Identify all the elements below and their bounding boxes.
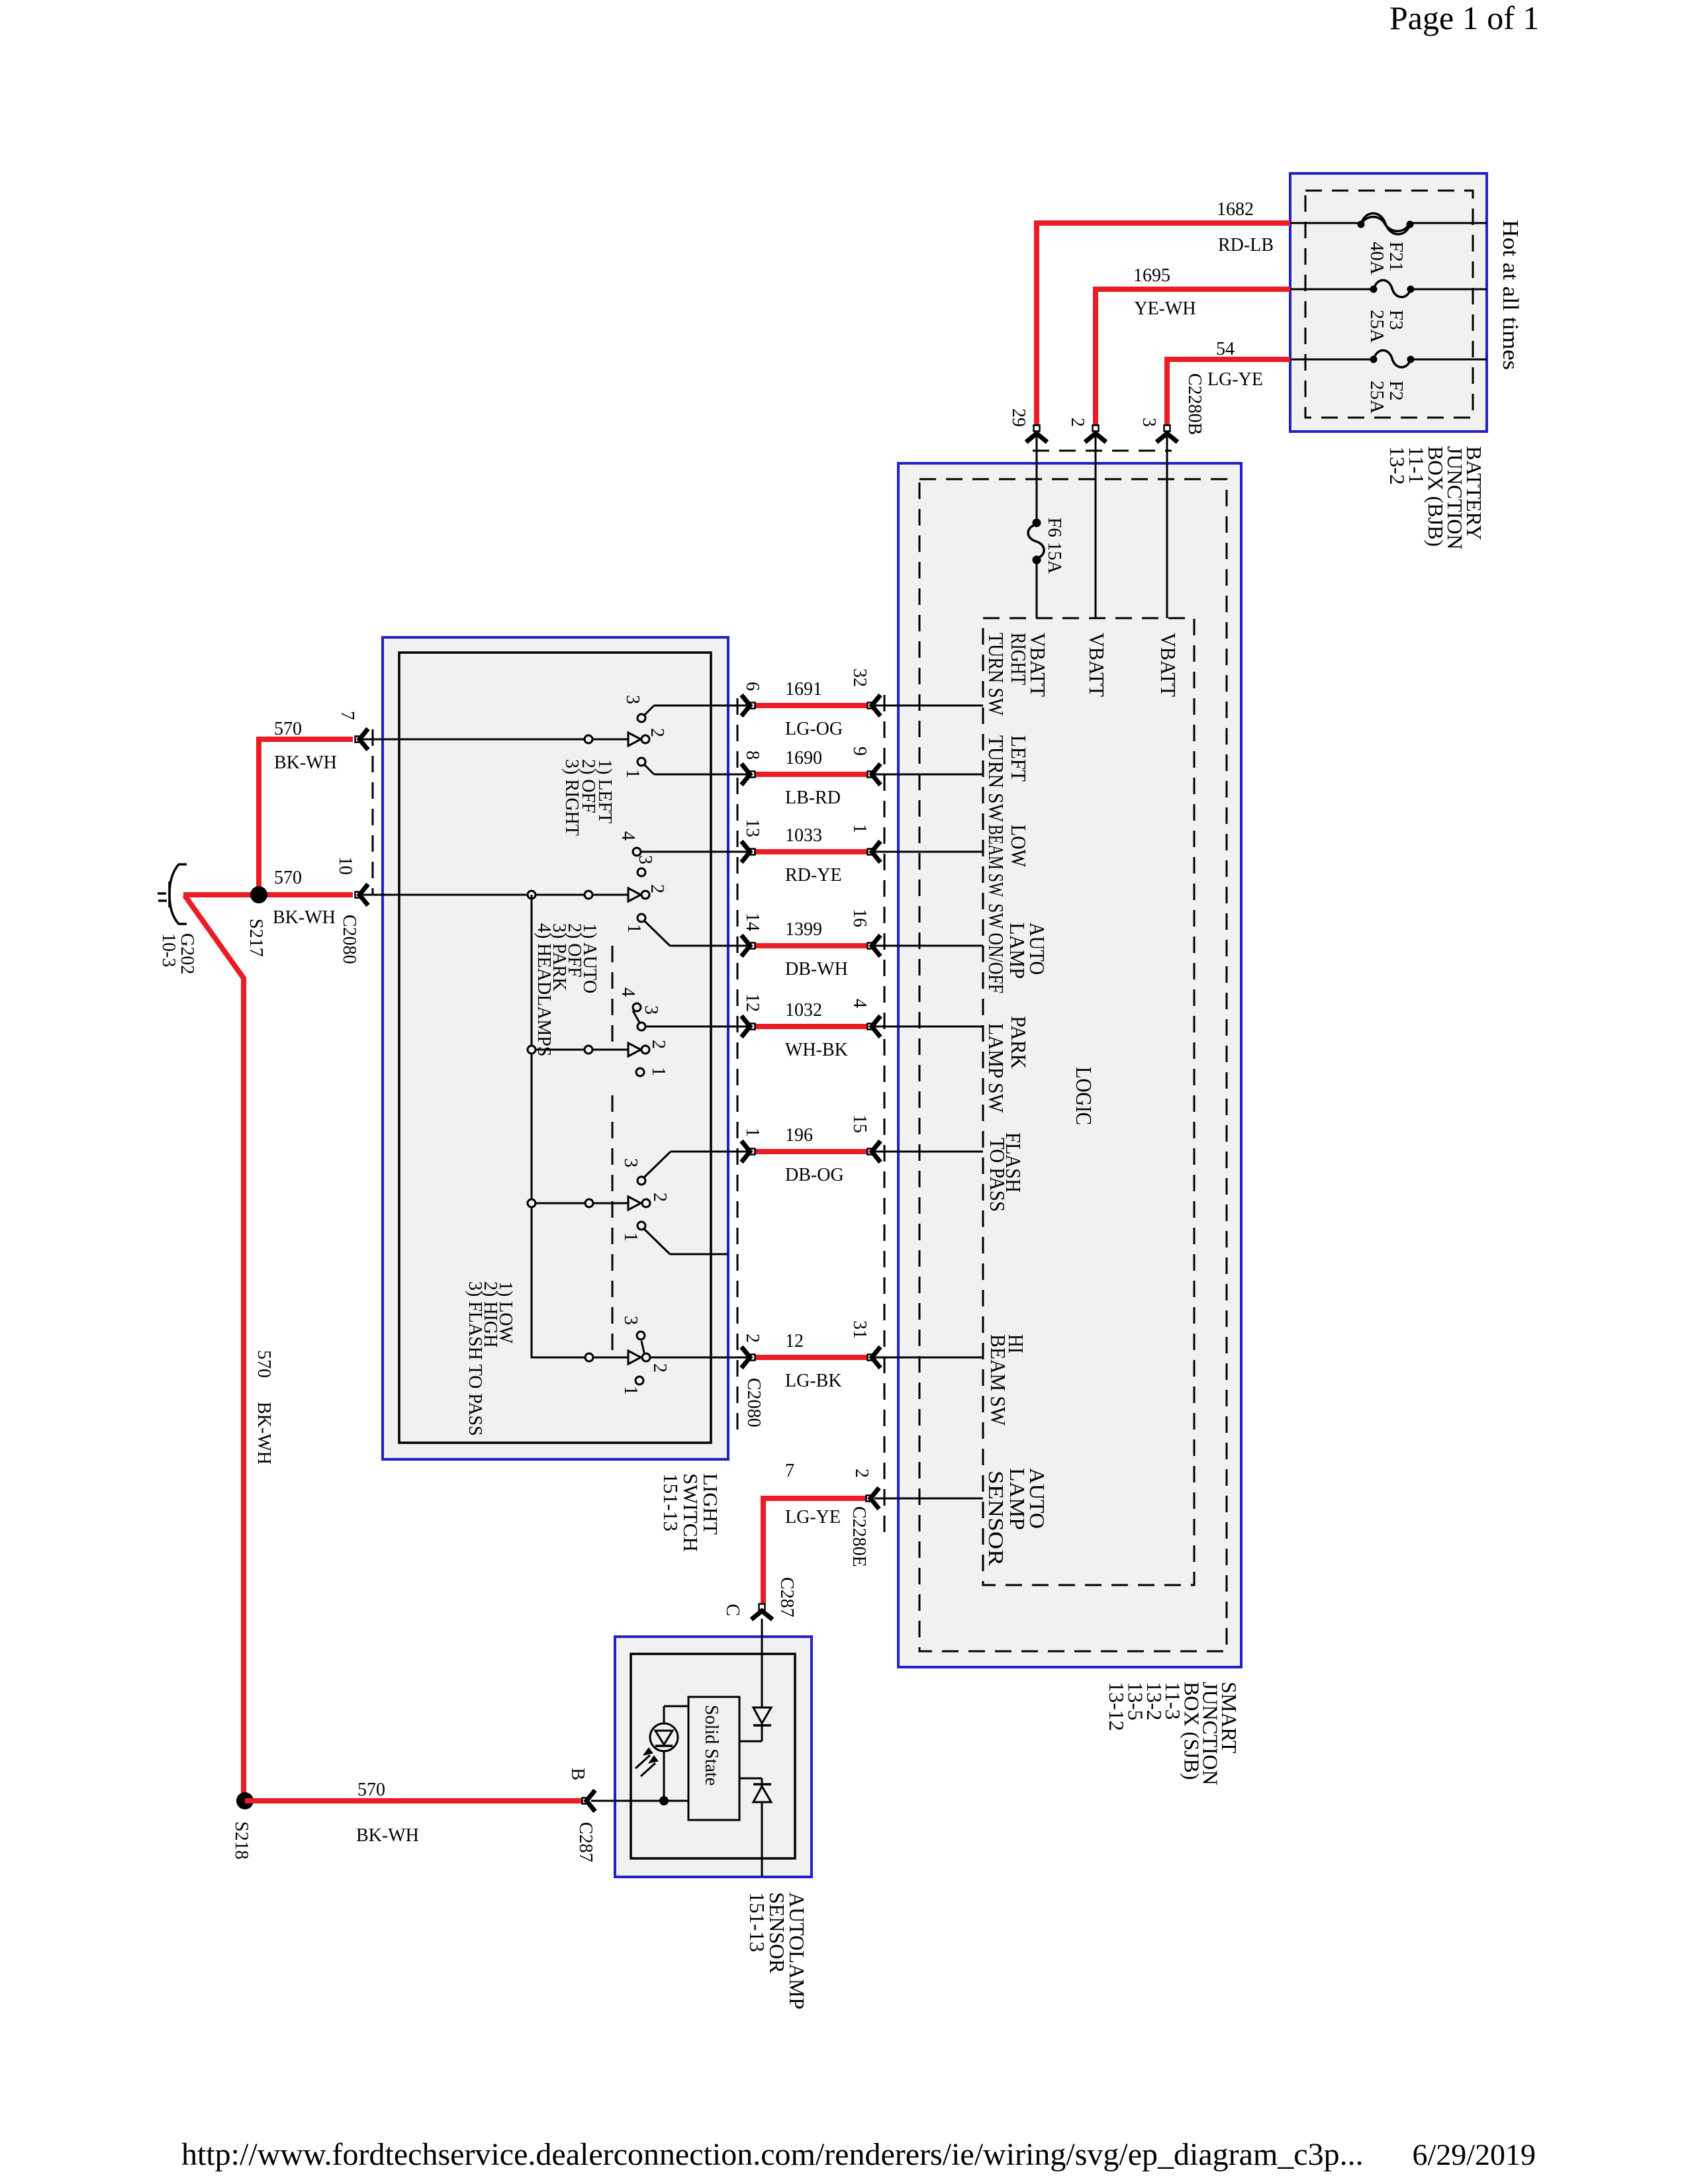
svg-text:RIGHT: RIGHT <box>1007 633 1031 685</box>
wire 1033 RD-YE row <box>728 851 747 853</box>
fuse F3 25A <box>1290 289 1374 291</box>
wire 1695 YE-WH <box>1096 289 1290 425</box>
svg-text:S218: S218 <box>231 1821 252 1860</box>
svg-text:13-12: 13-12 <box>1105 1682 1129 1731</box>
svg-text:LG-BK: LG-BK <box>785 1371 842 1391</box>
svg-text:C287: C287 <box>575 1822 596 1862</box>
Solid State box <box>688 1697 739 1820</box>
svg-text:1690: 1690 <box>785 748 822 768</box>
svg-text:2: 2 <box>649 1363 670 1373</box>
svg-text:BEAM SW: BEAM SW <box>984 825 1008 897</box>
svg-text:BK-WH: BK-WH <box>273 907 336 928</box>
svg-text:196: 196 <box>785 1125 813 1146</box>
svg-text:8: 8 <box>742 751 763 760</box>
svg-text:C287: C287 <box>776 1577 797 1617</box>
svg-text:LOW: LOW <box>1007 825 1031 868</box>
svg-text:SENSOR: SENSOR <box>984 1471 1008 1567</box>
svg-text:1: 1 <box>648 1067 669 1076</box>
LOGIC box <box>983 618 1194 1585</box>
svg-text:1: 1 <box>849 824 870 833</box>
svg-text:F2: F2 <box>1385 381 1407 401</box>
svg-text:1: 1 <box>622 769 643 778</box>
headlamp switch pole 2 <box>532 1049 628 1051</box>
svg-text:Solid State: Solid State <box>701 1705 722 1786</box>
svg-text:C2080: C2080 <box>743 1378 764 1428</box>
svg-text:TO PASS: TO PASS <box>986 1138 1009 1212</box>
svg-text:3: 3 <box>620 1158 641 1167</box>
svg-text:4) HEADLAMPS: 4) HEADLAMPS <box>534 923 554 1056</box>
smart junction box SJB <box>898 463 1241 1667</box>
svg-text:32: 32 <box>849 668 870 687</box>
headlamp switch pole 1 <box>363 894 628 896</box>
svg-text:B: B <box>567 1768 588 1780</box>
svg-text:BEAM SW: BEAM SW <box>986 1334 1010 1426</box>
wire 54 LG-YE <box>1167 359 1290 425</box>
svg-text:C2280E: C2280E <box>849 1506 869 1567</box>
svg-text:TURN SW: TURN SW <box>984 735 1008 823</box>
internal bus wire <box>532 895 628 1357</box>
wire 1691 LG-OG row <box>728 705 747 707</box>
svg-text:1: 1 <box>620 1232 641 1242</box>
svg-text:151-13: 151-13 <box>745 1892 769 1952</box>
svg-text:2: 2 <box>742 1334 763 1343</box>
ground G202 <box>169 864 187 924</box>
svg-text:1399: 1399 <box>785 919 822 940</box>
battery junction box BJB <box>1290 173 1487 432</box>
svg-text:LOGIC: LOGIC <box>1071 1067 1096 1125</box>
wire 7 LG-YE row <box>874 1498 983 1500</box>
svg-text:4: 4 <box>618 987 638 997</box>
wire 1690 LB-RD row <box>728 774 747 776</box>
svg-text:3: 3 <box>622 695 643 704</box>
svg-text:RD-LB: RD-LB <box>1218 235 1274 255</box>
svg-text:TURN SW: TURN SW <box>984 633 1008 716</box>
wire 12 LG-BK row <box>728 1357 747 1359</box>
wire 1032 WH-BK row <box>728 1026 747 1028</box>
fuse F2 25A <box>1290 359 1374 361</box>
svg-text:BK-WH: BK-WH <box>356 1825 419 1846</box>
svg-text:3) RIGHT: 3) RIGHT <box>561 759 582 836</box>
svg-text:4: 4 <box>849 999 870 1008</box>
connector C287 pin B <box>591 1800 688 1802</box>
svg-text:2: 2 <box>1067 418 1088 427</box>
svg-text:15: 15 <box>849 1115 870 1133</box>
svg-text:LAMP: LAMP <box>1006 1468 1029 1530</box>
svg-text:570: 570 <box>254 1350 274 1378</box>
svg-text:570: 570 <box>274 868 302 888</box>
diode D2 <box>739 1778 762 1780</box>
svg-text:VBATT: VBATT <box>1156 633 1180 697</box>
photodiode LED <box>650 1723 678 1751</box>
svg-text:7: 7 <box>337 711 357 720</box>
svg-text:http://www.fordtechservice.dea: http://www.fordtechservice.dealerconnect… <box>181 2137 1364 2172</box>
svg-text:570: 570 <box>357 1780 385 1800</box>
svg-text:2: 2 <box>649 1193 670 1202</box>
svg-text:F3: F3 <box>1385 310 1407 330</box>
svg-text:2: 2 <box>647 884 667 893</box>
svg-text:F21: F21 <box>1385 242 1407 271</box>
wire 1682 RD-LB <box>1037 223 1290 425</box>
svg-text:C2280B: C2280B <box>1184 373 1205 435</box>
wire 196 DB-OG row <box>728 1151 747 1153</box>
svg-text:40A: 40A <box>1366 242 1387 275</box>
svg-text:3: 3 <box>1139 418 1159 427</box>
svg-text:Page 1 of 1: Page 1 of 1 <box>1389 0 1539 36</box>
connector C2280B pins 29 2 3 <box>1095 437 1097 618</box>
light switch box <box>383 637 728 1459</box>
fuse F21 40A <box>1290 222 1358 224</box>
svg-text:1695: 1695 <box>1133 265 1170 286</box>
svg-text:6: 6 <box>742 682 763 691</box>
svg-text:2: 2 <box>648 1040 669 1049</box>
diode D1 <box>761 1619 763 1707</box>
svg-text:12: 12 <box>742 993 763 1012</box>
svg-text:29: 29 <box>1008 408 1029 427</box>
svg-text:LB-RD: LB-RD <box>785 788 841 808</box>
svg-text:25A: 25A <box>1366 310 1387 343</box>
svg-text:1682: 1682 <box>1217 199 1254 220</box>
svg-text:YE-WH: YE-WH <box>1134 298 1196 319</box>
svg-text:151-13: 151-13 <box>659 1473 682 1531</box>
svg-text:LAMP SW: LAMP SW <box>984 1023 1008 1113</box>
wire 570 BK-WH pin 7 <box>259 739 353 895</box>
svg-text:LAMP: LAMP <box>1006 923 1029 979</box>
svg-text:14: 14 <box>742 913 763 931</box>
svg-text:1033: 1033 <box>785 825 822 846</box>
svg-text:1032: 1032 <box>785 1000 822 1021</box>
wire 570 BK-WH to S218 <box>185 895 245 1801</box>
svg-text:1691: 1691 <box>785 679 822 700</box>
svg-text:16: 16 <box>849 909 870 927</box>
connector C2080 dashed line (left) <box>372 729 374 895</box>
connector C2080 dashed line (right) <box>737 698 739 1430</box>
svg-text:PARK: PARK <box>1007 1016 1031 1069</box>
dimmer switch pole 2 <box>585 1353 593 1361</box>
mechanical link dashed <box>612 946 614 1044</box>
svg-text:10-3: 10-3 <box>158 933 179 967</box>
dimmer switch pole 1 <box>532 1203 628 1205</box>
svg-text:LEFT: LEFT <box>1007 735 1031 782</box>
turn signal switch pole <box>363 739 628 741</box>
autolamp sensor box <box>615 1637 812 1877</box>
svg-text:C: C <box>722 1604 743 1616</box>
svg-text:VBATT: VBATT <box>1085 633 1109 697</box>
svg-text:DB-OG: DB-OG <box>785 1165 844 1185</box>
svg-text:2: 2 <box>647 728 667 737</box>
connector C2280 dashed line <box>884 695 886 1532</box>
svg-text:3: 3 <box>620 1316 641 1325</box>
photo arrows <box>635 1755 650 1768</box>
wire 570 BK-WH pin 10 <box>183 892 353 897</box>
svg-text:9: 9 <box>849 747 870 756</box>
svg-text:SW ON/OFF: SW ON/OFF <box>984 903 1008 993</box>
wire 570 BK-WH to autolamp sensor B <box>245 1798 582 1803</box>
svg-text:LG-YE: LG-YE <box>785 1507 841 1527</box>
svg-text:LG-YE: LG-YE <box>1207 369 1263 390</box>
svg-text:C2080: C2080 <box>339 915 359 964</box>
svg-text:BK-WH: BK-WH <box>274 752 337 773</box>
svg-text:F6 15A: F6 15A <box>1044 518 1064 574</box>
svg-text:Hot at all times: Hot at all times <box>1498 220 1523 370</box>
svg-text:13-2: 13-2 <box>1385 446 1409 485</box>
svg-text:WH-BK: WH-BK <box>785 1040 848 1060</box>
svg-text:4: 4 <box>618 831 638 841</box>
svg-text:G202: G202 <box>177 933 197 974</box>
wire 1399 DB-WH row <box>728 945 747 947</box>
svg-text:31: 31 <box>849 1320 870 1339</box>
svg-text:25A: 25A <box>1366 381 1387 414</box>
svg-text:6/29/2019: 6/29/2019 <box>1412 2138 1536 2171</box>
svg-text:3) FLASH TO PASS: 3) FLASH TO PASS <box>465 1281 485 1436</box>
svg-text:12: 12 <box>785 1331 804 1351</box>
svg-text:13: 13 <box>742 819 763 837</box>
svg-text:S217: S217 <box>246 919 266 957</box>
svg-text:1: 1 <box>620 1386 641 1395</box>
svg-text:570: 570 <box>274 719 302 739</box>
svg-text:1: 1 <box>742 1128 763 1137</box>
svg-text:3: 3 <box>641 1005 661 1015</box>
svg-text:10: 10 <box>335 856 355 875</box>
splice S217 <box>250 886 267 903</box>
svg-text:1: 1 <box>624 924 644 933</box>
svg-text:7: 7 <box>785 1461 794 1481</box>
svg-text:BK-WH: BK-WH <box>254 1402 274 1465</box>
svg-text:RD-YE: RD-YE <box>785 865 842 886</box>
fuse F6 15A <box>1033 520 1040 526</box>
wire pin B inside sensor <box>659 1796 669 1805</box>
splice S218 <box>236 1792 254 1809</box>
svg-text:DB-WH: DB-WH <box>785 959 848 979</box>
svg-text:54: 54 <box>1216 339 1235 359</box>
svg-text:LG-OG: LG-OG <box>785 719 843 739</box>
svg-text:3: 3 <box>635 855 655 864</box>
svg-text:2: 2 <box>851 1469 872 1478</box>
connector C287 pin C <box>761 1619 763 1707</box>
